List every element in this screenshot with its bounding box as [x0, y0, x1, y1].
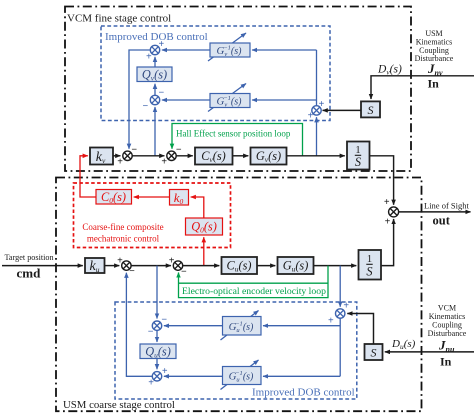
svg-text:+: + [161, 156, 167, 167]
block Gv-1(s) top [208, 33, 250, 61]
wire: plant tap down through L3 to Gu-1 inputs [339, 266, 341, 307]
wire: Gu-1 bottom output to L2 [164, 375, 223, 377]
svg-text:+: + [146, 52, 152, 63]
svg-text:−: − [159, 88, 165, 99]
wire: integrator to LoS sum [370, 156, 394, 205]
svg-text:−: − [143, 101, 149, 112]
block k0 [170, 190, 189, 207]
wire: k0 to C0 [134, 196, 170, 198]
svg-text:VCM fine stage control: VCM fine stage control [67, 13, 171, 25]
wire: In (VCM disturbance) to S [385, 351, 474, 353]
svg-text:S: S [355, 155, 361, 169]
wire: ku to USM sum1 [105, 265, 120, 267]
block Cu(s) [222, 257, 258, 274]
svg-text:+: + [343, 301, 349, 312]
svg-text:+: + [308, 111, 314, 122]
wire: Gv to integrator [287, 155, 345, 157]
wire: S1 output to main sum 1 [129, 50, 150, 149]
svg-text:+: + [117, 156, 123, 167]
wire: Gv-1 top output to S1 [162, 49, 210, 51]
svg-text:−: − [161, 314, 167, 325]
wire: vertical branch to Gv-1 bottom input [252, 99, 317, 101]
main sum 1 (VCM) [123, 151, 132, 160]
Improved DOB control box (USM) [115, 302, 357, 399]
svg-text:−: − [181, 266, 187, 277]
svg-text:Electro-optical encoder veloci: Electro-optical encoder velocity loop [182, 286, 326, 297]
wire: Gu-1 top output to L1 [164, 325, 223, 327]
svg-text:S: S [368, 103, 374, 117]
svg-text:+: + [328, 315, 334, 326]
Improved DOB control box (VCM) [101, 26, 330, 121]
wire: Qu to L2 [156, 358, 158, 370]
svg-text:Q0(s): Q0(s) [191, 220, 217, 235]
svg-text:cmd: cmd [17, 266, 42, 281]
red coarse-fine composite box [74, 183, 231, 248]
block Gu-1(s) bottom [221, 360, 262, 390]
block S (USM disturbance, top) [361, 101, 380, 117]
svg-text:USM coarse stage control: USM coarse stage control [63, 399, 175, 411]
block Q0(s) [186, 218, 223, 235]
wire: USM line tap up to Q0 [203, 237, 205, 265]
block Gu-1(s) top [221, 311, 262, 341]
wire: Gv-1 bottom output to S2 [162, 99, 210, 101]
LoS sum [389, 207, 399, 217]
svg-text:+: + [159, 39, 165, 50]
svg-text:S: S [366, 265, 372, 279]
svg-text:+: + [385, 217, 391, 228]
block integrator 1/S (VCM) [347, 142, 370, 170]
sum L3 [336, 309, 345, 318]
green electro-optical loop wire [179, 266, 329, 298]
USM sum 1 [122, 261, 131, 270]
svg-text:Gu(s): Gu(s) [283, 259, 309, 274]
svg-text:S: S [371, 346, 377, 360]
wire: branch to Gu-1 top input [263, 325, 340, 327]
block ku [85, 258, 105, 274]
svg-text:Dv(s): Dv(s) [377, 64, 402, 77]
sum S2 [150, 95, 159, 104]
svg-text:mechatronic control: mechatronic control [87, 234, 160, 244]
wire: Cu to Gu [257, 265, 275, 267]
svg-text:Qv(s): Qv(s) [142, 68, 167, 83]
svg-text:+: + [148, 378, 154, 389]
USM sum 2 [173, 261, 182, 270]
svg-text:+: + [319, 99, 325, 110]
sum L1 [152, 321, 161, 330]
svg-text:+: + [384, 197, 390, 208]
wire: vertical branch to Gv-1 top input [252, 49, 317, 51]
wire: USM sum1 to sum2 [131, 265, 171, 267]
svg-text:+: + [162, 366, 168, 377]
svg-text:1: 1 [367, 254, 372, 265]
wire: Qv to S1 [154, 57, 156, 67]
svg-text:Cu(s): Cu(s) [227, 259, 252, 274]
wire: integrator to LoS sum (bottom) [381, 219, 394, 266]
block S (VCM disturbance, bottom) [365, 344, 383, 360]
svg-text:Disturbance: Disturbance [428, 329, 467, 338]
wire: S2 to Qv [154, 84, 156, 96]
svg-text:Gv(s): Gv(s) [256, 149, 281, 164]
block integrator 1/S (USM) [359, 250, 382, 280]
block C0(s) [96, 190, 132, 206]
block Cv(s) [195, 148, 233, 165]
block Gv(s) [251, 148, 287, 165]
sum L2 [152, 372, 161, 381]
wire: cmd input to ku [2, 265, 83, 267]
svg-text:Hall Effect sensor position lo: Hall Effect sensor position loop [176, 129, 291, 139]
svg-text:+: + [169, 256, 175, 267]
green electro-optical loop box top [179, 282, 329, 284]
wire: S to L3 [347, 314, 373, 345]
svg-text:C0(s): C0(s) [101, 190, 126, 205]
wire: LoS output [399, 211, 471, 213]
svg-text:−: − [176, 145, 182, 156]
wire: In (USM disturbance) to S [371, 76, 474, 99]
wire: branch to Gu-1 bottom input [263, 375, 340, 377]
VCM fine stage control box [65, 7, 411, 172]
block Gv-1(s) bottom [208, 84, 250, 112]
wire: Cv to Gv [233, 155, 249, 157]
svg-text:Cv(s): Cv(s) [201, 149, 226, 164]
svg-text:out: out [433, 214, 451, 228]
wire: Gu to integrator [314, 265, 357, 267]
block kv [90, 148, 113, 166]
svg-text:Qu(s): Qu(s) [145, 345, 171, 360]
wire: USM line tap down to L1 [156, 266, 158, 319]
sum S1 [150, 45, 159, 54]
wire: USM sum2 to Cu [183, 265, 219, 267]
wire: S to S3 [323, 109, 361, 111]
wire: Q0 to k0 [191, 197, 204, 218]
svg-text:Coarse-fine composite: Coarse-fine composite [82, 222, 163, 232]
svg-text:−: − [131, 145, 137, 156]
main sum 2 (VCM) [167, 151, 176, 160]
wire: L1 to Qu [156, 331, 158, 342]
wire: main line tap up to S2 [154, 107, 156, 156]
svg-text:−: − [129, 266, 135, 277]
svg-text:Line of Sight: Line of Sight [424, 201, 469, 211]
svg-text:+: + [117, 256, 123, 267]
block Gu(s) [278, 257, 314, 274]
wire: L2 output to USM sum1 [126, 273, 152, 377]
wire: red line feeds kv [80, 156, 96, 197]
svg-text:In: In [428, 77, 440, 91]
USM coarse stage control box [56, 178, 422, 412]
svg-text:−: − [148, 327, 154, 338]
wire: sum2 to Cv [176, 155, 192, 157]
wire: sum1 to sum2 [132, 155, 164, 157]
svg-text:Improved DOB control: Improved DOB control [105, 31, 208, 43]
svg-text:Target position: Target position [5, 253, 54, 262]
svg-text:In: In [440, 355, 452, 369]
green Hall loop wire [172, 124, 303, 156]
sum S3 [312, 106, 321, 115]
block Qu(s) [140, 344, 176, 360]
svg-text:Improved DOB control: Improved DOB control [252, 387, 355, 399]
svg-text:Du(s): Du(s) [391, 338, 416, 351]
block Qv(s) [137, 67, 172, 83]
wire: kv to main sum1 [113, 155, 120, 157]
wire: plant tap up through S3 to Gv-1 inputs [316, 117, 318, 156]
